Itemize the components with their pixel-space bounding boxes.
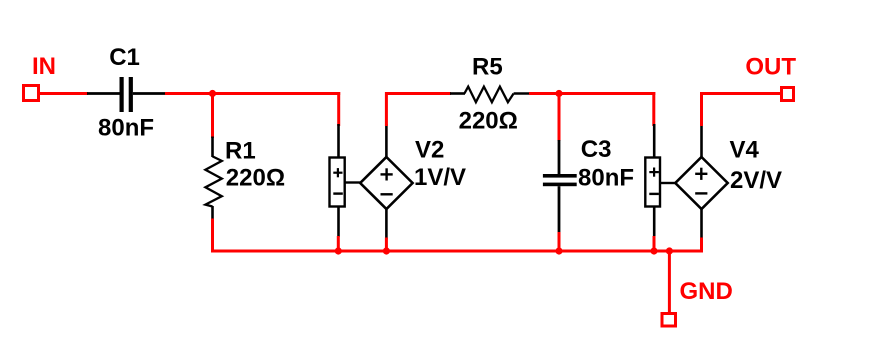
node C3/rail (555, 247, 562, 254)
wire IN to C1 (39, 92, 88, 95)
wire V4 top to OUT (700, 92, 703, 126)
resistor R5 (450, 87, 530, 103)
svg-text:80nF: 80nF (98, 114, 154, 141)
svg-text:2V/V: 2V/V (730, 167, 782, 194)
wire bottom rail (211, 250, 703, 253)
svg-text:C3: C3 (581, 136, 612, 163)
svg-text:C1: C1 (109, 44, 140, 71)
svg-text:R1: R1 (225, 137, 256, 164)
resistor R1 (205, 137, 221, 220)
wire R5 to corner above E2 (529, 92, 655, 95)
vcvs V4 (675, 124, 727, 239)
wire GND tap (668, 250, 671, 314)
vcvs V2 (360, 124, 412, 239)
wire R1 bottom to rail (211, 219, 214, 253)
capacitor C3 (543, 140, 577, 233)
svg-text:GND: GND (680, 278, 733, 305)
node junction at C1/R1 (209, 90, 216, 97)
svg-text:1V/V: 1V/V (414, 164, 466, 191)
svg-text:R5: R5 (472, 53, 503, 80)
wire C3 bottom to rail (558, 232, 561, 251)
wire E2 bottom to rail (653, 236, 656, 251)
node E1/rail (335, 247, 342, 254)
node E2/rail (650, 247, 657, 254)
sense port E1 (V2 control input) (330, 124, 362, 237)
sense port E2 (V4 control input) (645, 124, 676, 236)
node GND/rail (666, 247, 673, 254)
wire E1 bottom to rail (337, 236, 340, 251)
wire V2 top to top rail (385, 92, 388, 126)
port IN (24, 86, 39, 101)
wire corner down to E2 (652, 92, 655, 126)
wire corner down to E1 (337, 92, 340, 126)
port OUT (782, 88, 794, 101)
port GND (662, 314, 676, 327)
wire V2 bottom to rail (385, 238, 388, 252)
svg-text:80nF: 80nF (578, 165, 634, 192)
svg-text:IN: IN (32, 53, 56, 80)
svg-text:220Ω: 220Ω (226, 164, 285, 191)
wire C1 to corner above E1 (165, 92, 340, 95)
wire V4 bottom to rail (700, 238, 703, 253)
capacitor C1 (87, 77, 166, 112)
node V2/rail (383, 247, 390, 254)
node R5/C3 junction (555, 90, 562, 97)
svg-text:OUT: OUT (745, 54, 796, 81)
wire junction down to R1 (211, 94, 214, 139)
svg-text:V2: V2 (415, 137, 444, 164)
svg-text:220Ω: 220Ω (459, 107, 518, 134)
svg-text:V4: V4 (730, 136, 760, 163)
wire junction down to C3 (558, 92, 561, 141)
